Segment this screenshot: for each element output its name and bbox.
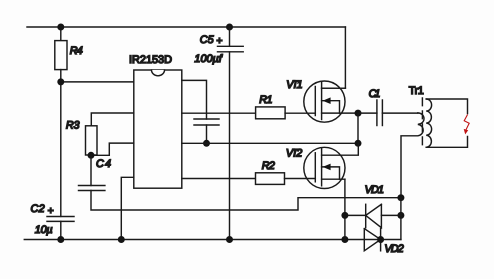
svg-text:+: + [48,205,54,217]
node dot midpoint C1 [355,110,362,117]
capacitor C1 [358,100,418,126]
wire C4 bottom to transformer return node T [91,191,401,211]
wire VT2 source to ground rail [344,179,346,239]
node dot R3 C4 pin3 [88,152,95,159]
transformer core [421,98,423,148]
wire IC pin 4 to ground [121,177,134,239]
node dot pin4 ground [118,236,125,243]
diode VD2 [364,229,380,251]
wire IC pin 7 to R1 [182,112,256,114]
resistor R4 [55,27,67,70]
svg-text:C5: C5 [200,34,215,46]
svg-text:R4: R4 [70,45,83,57]
wire IC pin 6 VS [182,142,358,144]
svg-text:VT1: VT1 [286,79,302,91]
wire IC pin 3 [91,143,134,155]
wire VCC vertical R4 to C2 [60,70,62,217]
node dot VT2 source ground [341,236,348,243]
svg-text:VD2: VD2 [384,243,403,255]
spark symbol [464,115,470,134]
node dot primary return upper [397,194,404,201]
wire primary return down to ground corner [400,198,402,240]
svg-text:C1: C1 [369,88,381,100]
node dot top rail R4 [57,24,64,31]
svg-text:VT2: VT2 [286,147,302,159]
svg-text:R2: R2 [262,160,275,172]
wire IC pin 2 to R3 top [91,113,134,126]
svg-text:100µf: 100µf [194,53,222,65]
svg-text:IR2153D: IR2153D [129,54,172,66]
resistor R1 [256,107,286,119]
svg-text:Tr1: Tr1 [409,85,424,97]
wire R1 to VT1 gate [285,112,315,114]
wire R2 to VT2 gate [285,178,316,180]
capacitor C4 [79,155,105,190]
resistor R2 [256,173,285,185]
node dot VD2 cathode rail [377,236,384,243]
wire midpoint to VS [357,113,359,143]
transformer Tr1 primary winding [401,113,424,198]
wire IC pin 1 [61,81,134,83]
svg-text:R1: R1 [259,94,272,106]
capacitor bootstrap [194,119,219,143]
ic U1 IR2153D [134,70,182,188]
wire C5 down to ground rail [229,52,231,240]
node dot bootstrap VS [203,140,210,147]
node dot top rail C5 [226,24,233,31]
transistor VT1 [304,81,358,122]
wire VT1 drain from top rail [322,27,346,88]
svg-text:+: + [216,35,222,47]
node dot VT2 source VD1 [341,212,348,219]
diode VD1 [366,204,382,227]
resistor R3 [86,126,98,155]
transformer Tr1 secondary winding [426,99,431,147]
svg-text:VD1: VD1 [365,184,384,196]
node dot C5 ground [226,236,233,243]
wire VD1 branch [345,214,401,216]
wire secondary load loop [426,99,467,147]
capacitor C2 [47,217,74,240]
transistor VT2 [304,143,359,188]
node dot VS VT2 drain [355,140,362,147]
svg-text:C2: C2 [31,203,45,215]
wire bottom ground rail [24,239,401,241]
svg-text:10µ: 10µ [35,224,53,236]
node dot primary return VD1 [397,212,404,219]
wire IC pin 8 to bootstrap cap [182,80,207,119]
wire top supply rail [27,26,345,28]
wire IC pin 5 to R2 [182,178,256,180]
node dot R4 pin1 [57,78,64,85]
svg-text:C4: C4 [96,158,111,170]
capacitor C5 [218,27,244,52]
node dot C2 ground [57,236,64,243]
svg-text:R3: R3 [66,120,80,132]
